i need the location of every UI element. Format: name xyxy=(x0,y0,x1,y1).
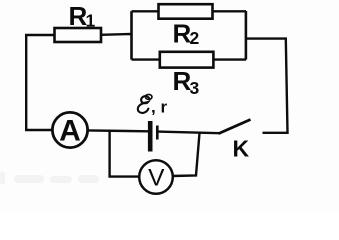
svg-text:2: 2 xyxy=(190,28,200,48)
svg-text:K: K xyxy=(233,136,250,162)
svg-text:3: 3 xyxy=(190,78,200,98)
svg-text:V: V xyxy=(148,164,165,191)
svg-text:A: A xyxy=(59,114,81,147)
svg-text:1: 1 xyxy=(86,11,96,31)
svg-text:, r: , r xyxy=(151,98,167,117)
